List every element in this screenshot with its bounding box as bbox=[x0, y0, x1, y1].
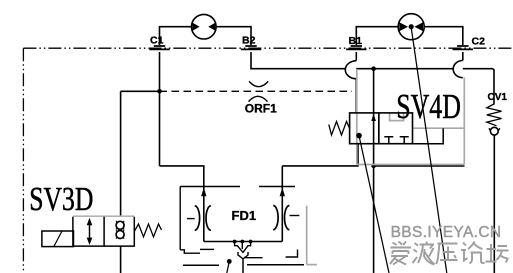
valve SV4D body right square bbox=[379, 113, 413, 144]
svg-text:B1: B1 bbox=[349, 35, 363, 47]
check valve CV1 wire top bbox=[493, 69, 494, 105]
node C1-ORF junction dot bbox=[157, 89, 162, 94]
valve SV4D spring bbox=[329, 122, 350, 136]
svg-text:FD1: FD1 bbox=[232, 208, 257, 223]
wire B1 down upper bbox=[355, 52, 357, 61]
gray subplate box SV4D right edge bbox=[463, 78, 465, 165]
node junction dot below SV4D bbox=[371, 164, 376, 169]
leader line A from motor M2 bbox=[411, 28, 447, 273]
valve SV3D lower circle bbox=[116, 231, 124, 239]
drain line right bbox=[247, 264, 304, 266]
watermark CJK 坛 bbox=[486, 244, 509, 263]
svg-text:ORF1: ORF1 bbox=[245, 101, 277, 115]
shuttle drain outlet bbox=[242, 259, 244, 273]
throttle FD1 left arrowhead bbox=[201, 188, 206, 196]
gray subplate box SV4D left edge bbox=[307, 69, 465, 265]
watermark CJK 爱 bbox=[390, 242, 411, 265]
node rail dot 1 bbox=[233, 240, 237, 244]
node junction dot main rail / SV4D P line bbox=[371, 66, 376, 71]
watermark CJK 压 bbox=[436, 244, 458, 265]
drain line mid right bbox=[245, 257, 263, 259]
wire SV3D vertical upper bbox=[120, 91, 122, 217]
port C1 bars bbox=[149, 46, 169, 49]
throttle FD1 right tick bbox=[290, 215, 300, 217]
orifice ORF1 lower arc bbox=[249, 96, 268, 101]
flow divider FD1 box left edge bbox=[179, 187, 181, 250]
flow divider FD1 box corner bottom-left bbox=[180, 250, 200, 253]
wire branch to SV3D horizontal bbox=[121, 90, 160, 92]
node rail dot 3 bbox=[249, 240, 253, 244]
crossover hop on B1 wire bbox=[345, 61, 356, 79]
leader dot bottom center bbox=[227, 259, 232, 264]
flow divider FD1 box top right segment bbox=[259, 186, 295, 188]
throttle FD1 left arcs bbox=[195, 206, 211, 231]
motor M2 left arrowhead bbox=[399, 22, 408, 31]
wire motor M2 left to B1 bbox=[356, 27, 398, 45]
wire below SV4D to right bbox=[374, 165, 465, 167]
wire C1 vertical down bbox=[159, 52, 161, 166]
port B2 bars bbox=[241, 46, 261, 49]
svg-text:SV4D: SV4D bbox=[396, 87, 461, 126]
throttle FD1 right arrowhead bbox=[280, 188, 285, 196]
valve SV4D flow arrowhead bbox=[371, 114, 376, 122]
shuttle drain middle stem bbox=[241, 242, 243, 250]
flow divider FD1 box top left segment bbox=[180, 186, 240, 188]
wire B2 to main rail bbox=[251, 52, 493, 69]
port B1 bars bbox=[346, 46, 366, 49]
wire C2 down upper bbox=[462, 52, 464, 61]
svg-text:SV3D: SV3D bbox=[29, 179, 93, 217]
gray FD1 bottom edge bbox=[307, 264, 317, 266]
valve SV3D body gray top edge bbox=[73, 215, 134, 217]
svg-text:CV1: CV1 bbox=[488, 92, 508, 103]
shuttle drain chevron lower bbox=[238, 252, 248, 259]
orifice ORF1 upper arc bbox=[249, 81, 268, 86]
orifice line ORF1 dashed bbox=[160, 90, 353, 92]
port C2 bars bbox=[453, 46, 473, 49]
wire SV3D vertical lower drain bbox=[120, 246, 122, 273]
shuttle drain chevron upper bbox=[235, 242, 251, 253]
wire C1 to FD1 left throttle bbox=[160, 166, 204, 242]
valve SV3D upper circle bbox=[116, 221, 124, 229]
watermark CJK 液 bbox=[413, 242, 435, 265]
wire motor M1 right to B2 bbox=[216, 27, 251, 45]
enclosure boundary chain line horizontal bbox=[23, 47, 513, 49]
motor M2 circle bbox=[398, 14, 424, 40]
wire from junction to bottom edge bbox=[373, 166, 375, 273]
valve SV3D body right square bbox=[104, 217, 134, 246]
gray FD1 right edge bbox=[306, 206, 308, 265]
wire motor M2 right to C2 bbox=[424, 27, 463, 45]
valve SV4D body left square bbox=[350, 113, 379, 144]
gray detent U under SV4D top bbox=[390, 114, 404, 121]
wire B1 down lower to SV4D bbox=[355, 79, 357, 113]
check valve CV1 spring bbox=[487, 104, 502, 126]
enclosure boundary chain line vertical bbox=[22, 48, 24, 273]
check valve CV1 ball bbox=[490, 127, 498, 135]
watermark CJK 论 bbox=[461, 242, 485, 264]
valve SV3D solenoid box bbox=[42, 231, 74, 247]
valve SV3D body left square bbox=[73, 217, 104, 246]
wire SV4D T-port to FD1 right throttle bbox=[282, 144, 358, 242]
wire FD1 bottom rail bbox=[204, 241, 282, 243]
motor M1 left arrowhead bbox=[193, 23, 200, 31]
gray subplate box SV4D bottom edge bbox=[357, 164, 464, 166]
valve SV3D spring bbox=[134, 224, 161, 237]
valve SV4D blocked port T2 bbox=[400, 137, 409, 144]
leader line C from SV4D dot bbox=[359, 136, 389, 273]
flow divider FD1 box corner bottom-right bbox=[286, 250, 298, 258]
motor M1 circle bbox=[192, 14, 217, 39]
throttle FD1 left tick bbox=[187, 218, 195, 220]
wire SV4D P vertical through valve bbox=[373, 69, 375, 166]
valve SV4D solenoid box right bbox=[413, 128, 444, 144]
wire motor M1 left to C1 bbox=[160, 27, 192, 45]
motor M1 right arrowhead bbox=[208, 23, 215, 31]
node rail dot 2 bbox=[240, 240, 244, 244]
svg-text:B2: B2 bbox=[242, 34, 256, 46]
svg-text:BBS.IYEYA.CN: BBS.IYEYA.CN bbox=[391, 224, 502, 241]
motor M2 right arrowhead bbox=[414, 22, 423, 31]
svg-text:C2: C2 bbox=[472, 36, 486, 48]
valve SV4D blocked port T1 bbox=[384, 137, 393, 144]
leader line D tail bbox=[227, 261, 230, 273]
drain line left bbox=[183, 264, 219, 266]
drain stub left dash bbox=[200, 248, 214, 250]
check valve CV1 seat bbox=[489, 128, 500, 136]
motor M2 center dot bbox=[409, 24, 414, 29]
svg-text:C1: C1 bbox=[150, 34, 164, 46]
throttle FD1 right arcs bbox=[273, 206, 289, 230]
valve SV3D check seat X marks bbox=[116, 221, 124, 239]
valve SV3D solenoid diagonal bbox=[54, 231, 62, 247]
leader dot on SV4D bbox=[356, 133, 362, 139]
crossover hop on C2 wire bbox=[453, 61, 463, 78]
check valve CV1 wire bottom bbox=[493, 135, 495, 273]
gray solenoid top edge SV4D bbox=[413, 127, 465, 129]
valve SV3D double arrow bbox=[89, 222, 91, 242]
